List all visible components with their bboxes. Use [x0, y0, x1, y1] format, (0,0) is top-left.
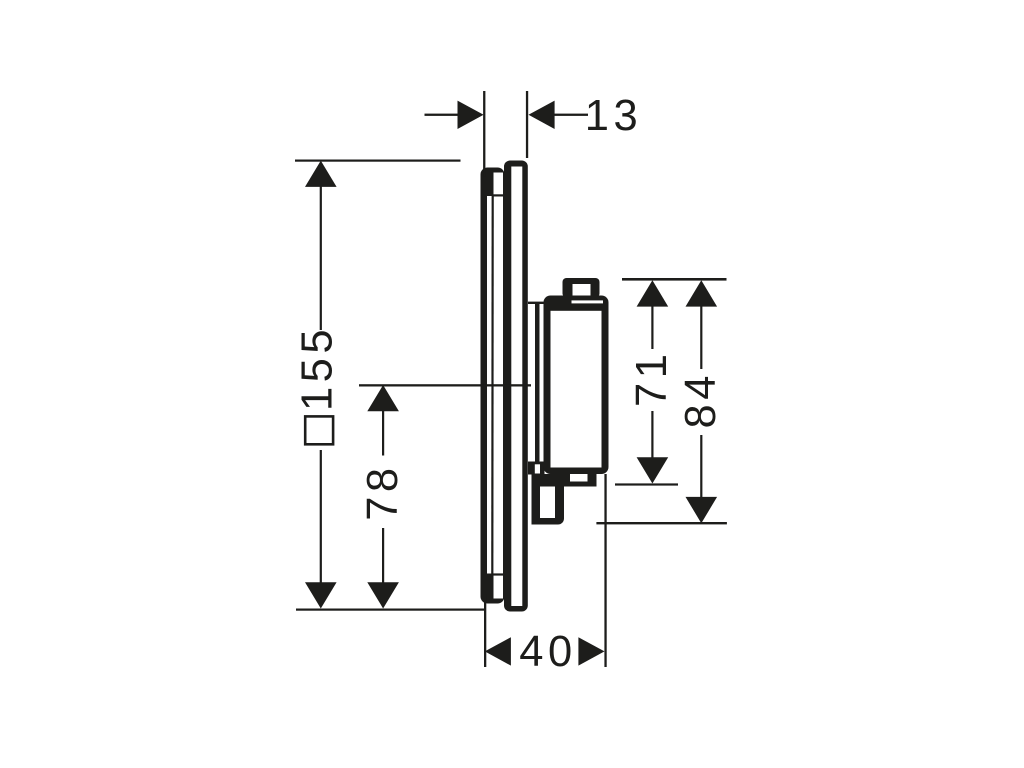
- dim 40: left extension line: [484, 594, 486, 667]
- dim 155: top extension line: [295, 160, 461, 162]
- valve body (outer): [544, 296, 609, 475]
- back plate top divider: [493, 194, 504, 196]
- svg-text:155: 155: [294, 325, 342, 411]
- spindle knob on top: [563, 278, 600, 298]
- dim 84: line lower segment: [700, 435, 702, 497]
- back plate bottom flange: [487, 574, 494, 599]
- dim 78: top arrow: [367, 385, 399, 411]
- dim 155: line lower segment: [320, 450, 322, 583]
- dim 13: left arrow: [458, 101, 484, 129]
- dim 71: top arrow: [637, 280, 669, 306]
- spindle knob interior (white): [573, 284, 591, 296]
- front plate interior (white): [511, 167, 522, 607]
- dim 78: bottom arrow: [367, 582, 399, 608]
- centerline / 78 top extension line: [359, 384, 531, 386]
- back wall plate interior (white): [487, 173, 503, 599]
- dim 40: left arrow: [485, 637, 511, 665]
- dim 71: bottom extension line: [615, 483, 678, 485]
- dim 78: line lower segment: [382, 528, 384, 583]
- dim 13: right extension line: [526, 91, 528, 158]
- dim 13: right tail: [555, 114, 589, 116]
- back plate top flange: [487, 173, 494, 197]
- connector bottom notch (white): [535, 464, 540, 473]
- svg-text:71: 71: [628, 350, 676, 407]
- dim 155: bottom extension line: [296, 609, 486, 611]
- dim 155: bottom arrow: [305, 582, 337, 608]
- dim 84: top arrow: [686, 280, 718, 306]
- svg-text:40: 40: [519, 628, 576, 676]
- dim 78: line upper segment: [382, 411, 384, 456]
- dim 40: right extension line: [604, 474, 606, 667]
- back wall plate (side profile, outer): [481, 168, 505, 604]
- connector bottom block: [528, 462, 545, 475]
- back plate inner contour line: [491, 196, 494, 574]
- valve body interior (white): [551, 311, 602, 468]
- back plate bottom divider: [493, 573, 504, 575]
- dim 40: right arrow: [578, 637, 604, 665]
- svg-text:13: 13: [585, 92, 642, 140]
- dim 13: right arrow: [529, 101, 555, 129]
- svg-text:78: 78: [359, 463, 407, 520]
- dim 155: top arrow: [305, 161, 337, 187]
- dim 84: bottom extension line: [596, 522, 727, 524]
- bottom step notch (white): [570, 474, 588, 482]
- dim 84: bottom arrow: [686, 497, 718, 523]
- dim 13: left extension line: [483, 91, 485, 177]
- outlet pipe elbow: [532, 474, 565, 525]
- dim 155: line upper segment: [320, 186, 322, 330]
- dim 71/84: top extension line: [622, 278, 727, 281]
- bottom step block: [540, 474, 597, 487]
- dim 71: bottom arrow: [637, 457, 669, 483]
- front escutcheon plate (side profile, outer): [504, 161, 528, 612]
- connector mid line: [535, 303, 540, 463]
- connector top edge: [528, 302, 545, 304]
- dim 155: square symbol: [305, 416, 333, 444]
- dim 13: left tail: [425, 114, 458, 116]
- dim 71: line lower segment: [651, 411, 653, 458]
- valve body cap sliver (white): [572, 300, 604, 303]
- outlet pipe interior (white): [540, 487, 555, 519]
- svg-text:84: 84: [677, 371, 725, 428]
- dim 84: line upper segment: [700, 306, 702, 369]
- dim 71: line upper segment: [651, 306, 653, 349]
